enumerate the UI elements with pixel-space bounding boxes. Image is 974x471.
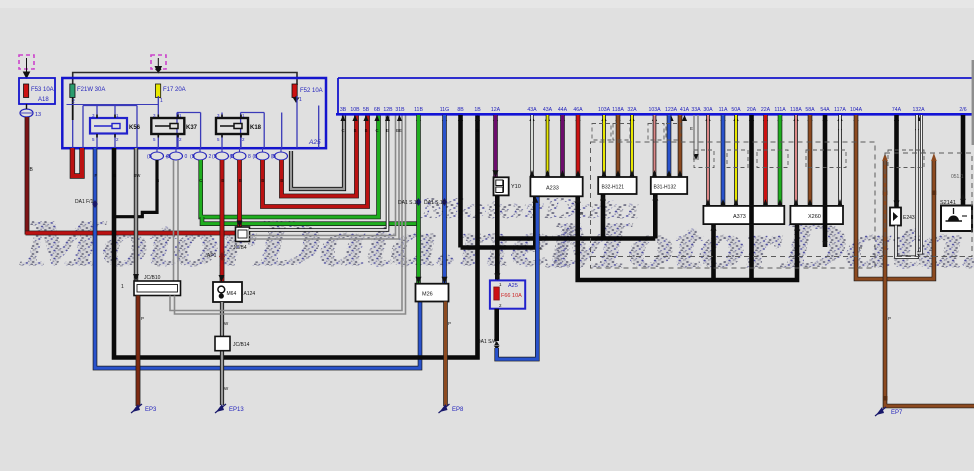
svg-text:EP8: EP8 bbox=[452, 407, 464, 413]
svg-text:31B: 31B bbox=[395, 107, 405, 113]
svg-text:B: B bbox=[280, 178, 283, 183]
svg-text:E: E bbox=[690, 126, 693, 131]
svg-text:1: 1 bbox=[160, 98, 163, 104]
svg-text:1: 1 bbox=[121, 284, 124, 290]
svg-text:11B: 11B bbox=[414, 107, 423, 113]
svg-text:0: 0 bbox=[185, 154, 188, 160]
svg-text:B: B bbox=[113, 173, 116, 178]
svg-text:104A: 104A bbox=[850, 107, 863, 113]
svg-text:(B: (B bbox=[147, 154, 153, 160]
svg-text:DA1 F/1: DA1 F/1 bbox=[75, 199, 94, 205]
svg-text:103A: 103A bbox=[598, 107, 611, 113]
svg-text:C: C bbox=[375, 128, 378, 133]
svg-text:(B: (B bbox=[190, 154, 196, 160]
svg-text:F17 20A: F17 20A bbox=[163, 87, 186, 93]
svg-text:12B: 12B bbox=[383, 107, 393, 113]
svg-text:AP1: AP1 bbox=[207, 253, 217, 259]
svg-text:BW: BW bbox=[134, 173, 141, 178]
svg-text:(B: (B bbox=[230, 154, 236, 160]
svg-text:3B: 3B bbox=[340, 107, 347, 113]
svg-text:13: 13 bbox=[35, 112, 41, 118]
svg-text:B: B bbox=[580, 211, 583, 216]
svg-text:22A: 22A bbox=[761, 107, 771, 113]
svg-text:8B: 8B bbox=[457, 107, 464, 113]
svg-text:117A: 117A bbox=[834, 107, 846, 113]
svg-text:A373: A373 bbox=[733, 214, 746, 220]
svg-text:B32-H121: B32-H121 bbox=[602, 185, 625, 191]
svg-text:M64: M64 bbox=[227, 291, 237, 297]
svg-text:8: 8 bbox=[248, 154, 251, 160]
svg-text:1: 1 bbox=[299, 97, 302, 103]
svg-text:C: C bbox=[341, 128, 344, 133]
svg-text:F: F bbox=[95, 173, 98, 178]
svg-text:JC/B4: JC/B4 bbox=[233, 245, 247, 251]
svg-text:F52 10A: F52 10A bbox=[300, 88, 323, 94]
svg-text:(B: (B bbox=[212, 154, 218, 160]
svg-text:C: C bbox=[199, 178, 202, 183]
svg-text:103A: 103A bbox=[648, 107, 661, 113]
svg-text:DA1 S.11: DA1 S.11 bbox=[398, 200, 419, 206]
svg-text:A124: A124 bbox=[244, 291, 256, 297]
svg-text:5B: 5B bbox=[363, 107, 370, 113]
svg-text:118A: 118A bbox=[612, 107, 624, 113]
svg-text:123A: 123A bbox=[665, 107, 678, 113]
svg-text:B: B bbox=[221, 178, 224, 183]
svg-text:43A: 43A bbox=[527, 107, 537, 113]
svg-text:46A: 46A bbox=[573, 107, 583, 113]
svg-text:K37: K37 bbox=[186, 125, 198, 131]
svg-text:11A: 11A bbox=[719, 107, 728, 113]
svg-text:P: P bbox=[859, 246, 862, 251]
svg-text:Y10: Y10 bbox=[511, 184, 521, 190]
svg-text:A25: A25 bbox=[508, 283, 518, 289]
svg-text:(B: (B bbox=[166, 154, 172, 160]
svg-text:E243: E243 bbox=[903, 215, 915, 221]
svg-text:(B: (B bbox=[253, 154, 259, 160]
svg-text:DA1 S.10: DA1 S.10 bbox=[424, 200, 446, 206]
svg-text:132A: 132A bbox=[912, 107, 925, 113]
svg-text:JC/B10: JC/B10 bbox=[144, 275, 161, 281]
svg-text:32A: 32A bbox=[627, 107, 637, 113]
svg-text:K18: K18 bbox=[250, 125, 262, 131]
svg-text:A18: A18 bbox=[38, 97, 49, 103]
svg-text:33A: 33A bbox=[691, 107, 701, 113]
svg-text:1B: 1B bbox=[474, 107, 481, 113]
svg-text:MotorData: MotorData bbox=[419, 191, 639, 225]
svg-text:S2141: S2141 bbox=[940, 200, 956, 206]
svg-text:F21W 30A: F21W 30A bbox=[77, 87, 105, 93]
svg-text:44A: 44A bbox=[558, 107, 568, 113]
svg-text:11G: 11G bbox=[440, 107, 449, 113]
svg-text:B: B bbox=[239, 178, 242, 183]
svg-text:10B: 10B bbox=[350, 107, 360, 113]
svg-text:B: B bbox=[156, 178, 159, 183]
svg-text:P: P bbox=[141, 316, 144, 321]
svg-text:6B: 6B bbox=[374, 107, 381, 113]
svg-text:K56: K56 bbox=[129, 125, 141, 131]
svg-text:F53 10A: F53 10A bbox=[31, 87, 54, 93]
svg-text:P: P bbox=[888, 316, 891, 321]
svg-text:B: B bbox=[476, 128, 479, 133]
svg-text:58A: 58A bbox=[805, 107, 815, 113]
svg-text:E: E bbox=[386, 128, 389, 133]
svg-text:M26: M26 bbox=[422, 292, 433, 298]
svg-text:A233: A233 bbox=[546, 186, 559, 192]
svg-text:BE: BE bbox=[396, 128, 402, 133]
svg-text:X260: X260 bbox=[808, 214, 821, 220]
svg-text:12A: 12A bbox=[491, 107, 501, 113]
svg-text:DA1 S/A: DA1 S/A bbox=[477, 339, 497, 345]
svg-text:B: B bbox=[261, 178, 264, 183]
svg-text:B: B bbox=[354, 128, 357, 133]
svg-text:F66 10A: F66 10A bbox=[501, 293, 522, 299]
svg-text:JC/B14: JC/B14 bbox=[233, 342, 250, 348]
svg-text:B: B bbox=[365, 128, 368, 133]
svg-text:20A: 20A bbox=[747, 107, 757, 113]
svg-text:EP13: EP13 bbox=[229, 407, 244, 413]
svg-text:EP3: EP3 bbox=[145, 407, 157, 413]
svg-text:B31-H132: B31-H132 bbox=[654, 185, 677, 191]
svg-text:41A: 41A bbox=[680, 107, 690, 113]
svg-text:50A: 50A bbox=[731, 107, 741, 113]
svg-text:051.1: 051.1 bbox=[951, 174, 964, 180]
svg-text:118A: 118A bbox=[790, 107, 802, 113]
svg-text:30A: 30A bbox=[703, 107, 713, 113]
svg-text:74A: 74A bbox=[892, 107, 902, 113]
svg-text:2/6: 2/6 bbox=[959, 107, 966, 113]
svg-text:EP7: EP7 bbox=[891, 410, 903, 416]
svg-text:111A: 111A bbox=[774, 107, 786, 113]
svg-text:54A: 54A bbox=[820, 107, 830, 113]
svg-text:43A: 43A bbox=[543, 107, 553, 113]
svg-text:P: P bbox=[448, 321, 451, 326]
svg-text:(B: (B bbox=[271, 154, 277, 160]
